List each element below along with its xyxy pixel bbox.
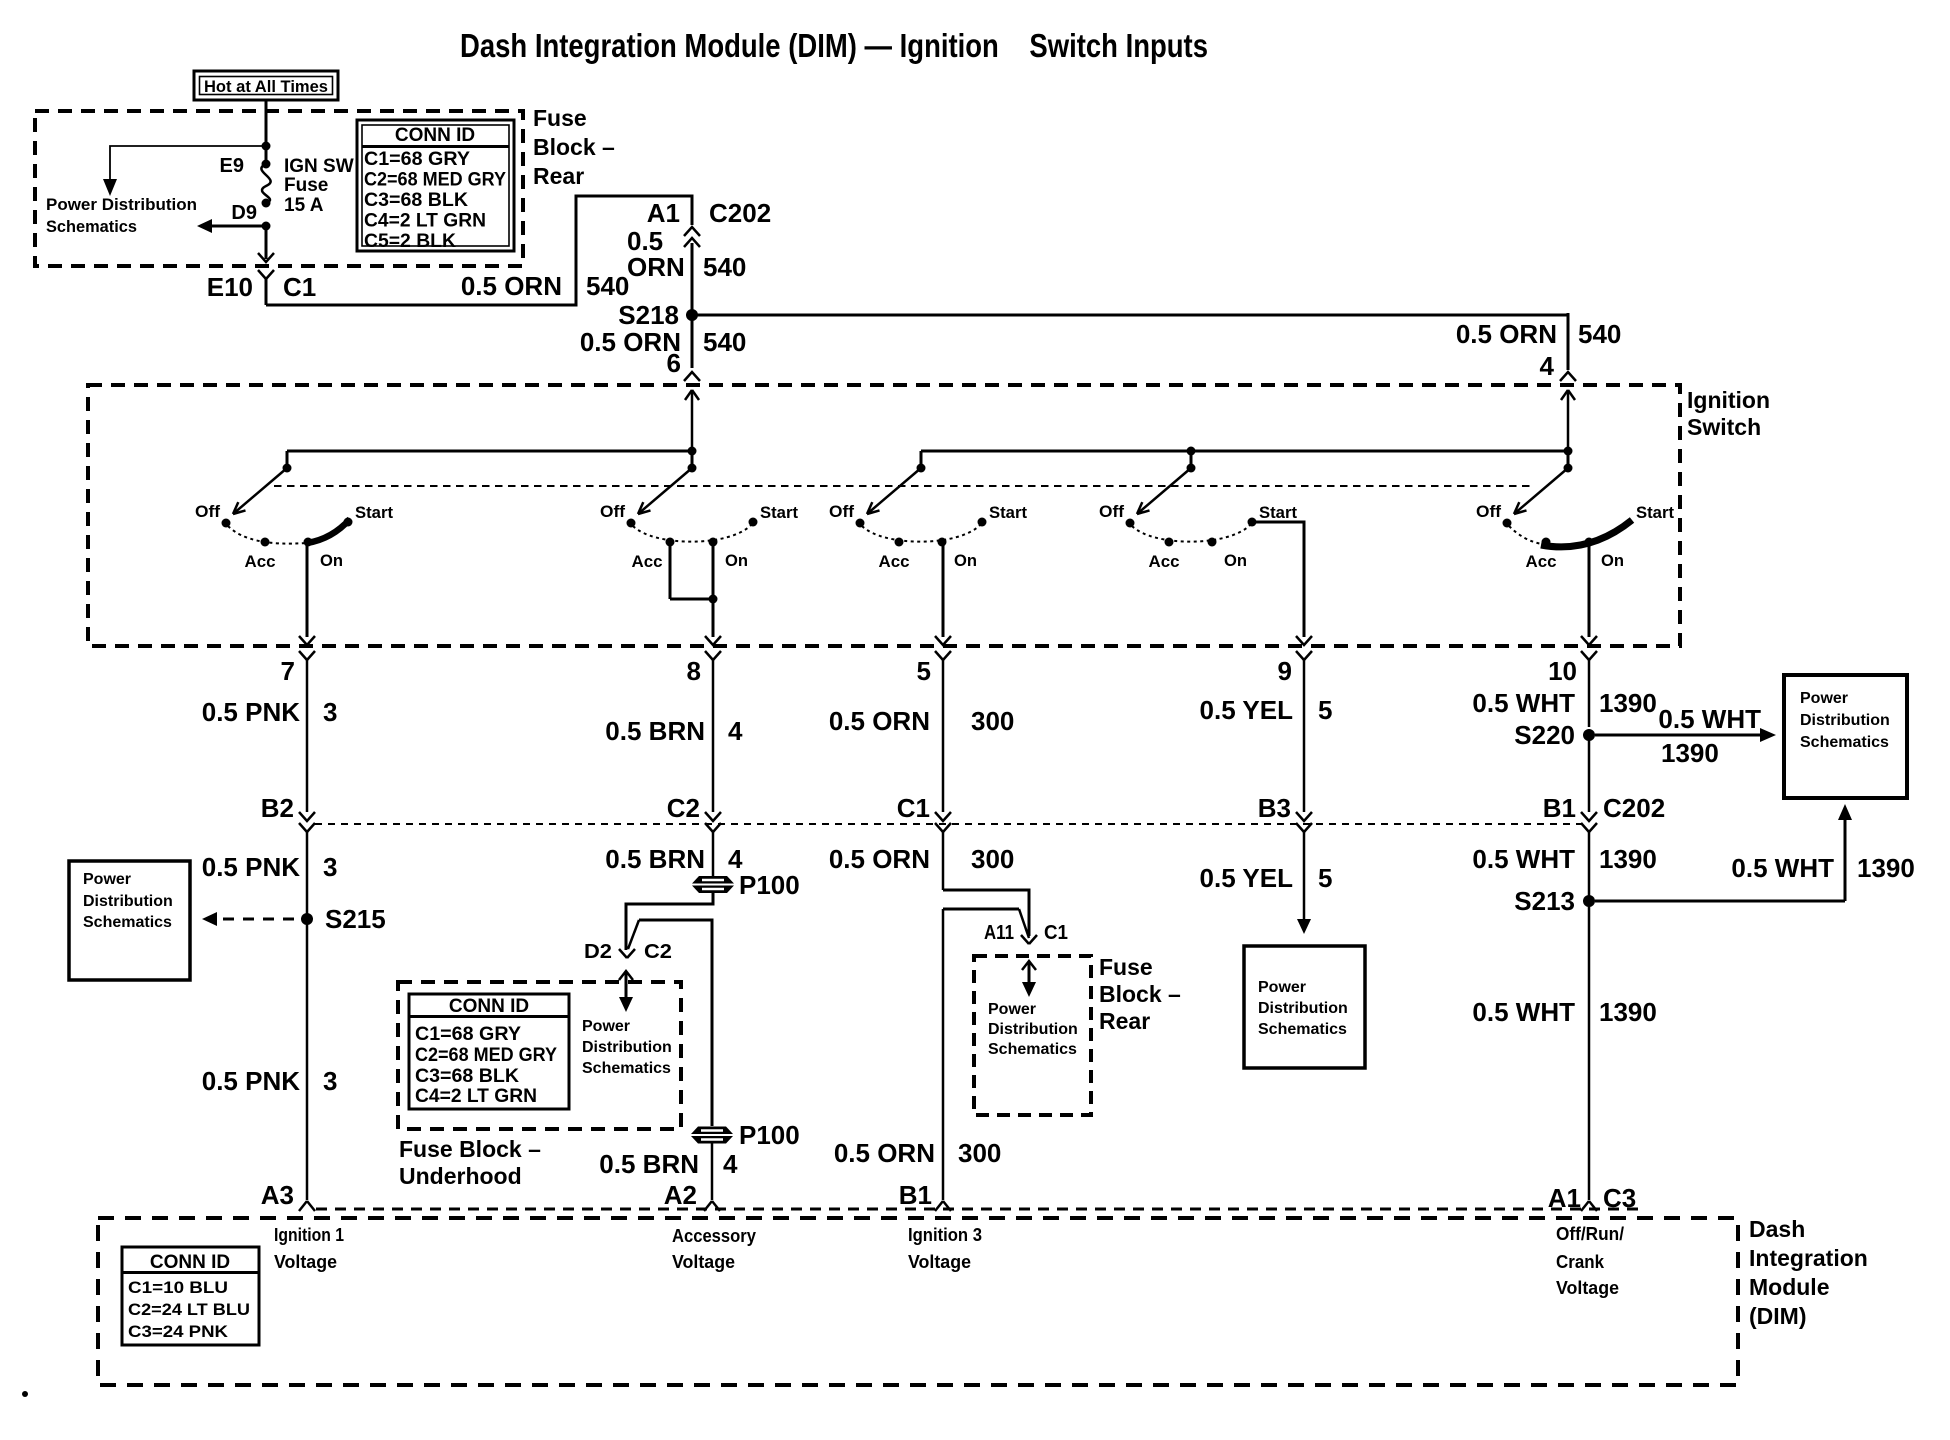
wire and arrow to power distribution schematics (left) (212, 225, 266, 228)
wire S218 branch to right (0.5 ORN 540) (692, 314, 1568, 317)
switch 1 output wire to pin 7 (306, 543, 309, 637)
splice S220 (1583, 729, 1595, 741)
wire C202 B2 down to DIM A3 (0.5 PNK 3) (306, 832, 309, 1200)
svg-text:Distribution: Distribution (988, 1021, 1078, 1038)
svg-text:5: 5 (917, 656, 931, 686)
switch bus wire (left section) (287, 450, 692, 453)
svg-text:On: On (1224, 551, 1247, 570)
switch section pivot (x=1568) (1567, 451, 1570, 468)
contact Acc (666, 538, 675, 547)
switch 2 Acc/On tie wires (669, 542, 672, 599)
svg-text:0.5 WHT: 0.5 WHT (1472, 688, 1575, 718)
svg-text:Ignition 1: Ignition 1 (274, 1225, 344, 1245)
svg-text:C2=24 LT BLU: C2=24 LT BLU (128, 1300, 250, 1319)
svg-text:Power: Power (582, 1018, 630, 1035)
svg-text:Fuse: Fuse (1099, 954, 1153, 980)
svg-text:A2: A2 (664, 1180, 697, 1210)
switch 5 output wire to pin 10 (1588, 546, 1591, 637)
contact Acc (1165, 538, 1174, 547)
svg-text:10: 10 (1548, 656, 1577, 686)
wire S220 to C202 B1 (1588, 735, 1591, 812)
svg-text:0.5 BRN: 0.5 BRN (599, 1149, 699, 1179)
connector C202 pin A1 (double chevron) (684, 227, 700, 236)
svg-text:C2: C2 (667, 793, 700, 823)
svg-text:On: On (954, 551, 977, 570)
svg-text:0.5 ORN: 0.5 ORN (461, 271, 562, 301)
svg-text:7: 7 (281, 656, 295, 686)
travel arc (dashed) (862, 525, 980, 542)
svg-text:Off: Off (195, 502, 220, 521)
svg-text:300: 300 (971, 706, 1014, 736)
wire P100 to branch point (626, 893, 713, 950)
svg-text:P100: P100 (739, 1120, 800, 1150)
svg-text:0.5 BRN: 0.5 BRN (605, 844, 705, 874)
svg-text:540: 540 (1578, 319, 1621, 349)
splice S215 (301, 913, 313, 925)
fuse block underhood dashed box (398, 982, 681, 1129)
switch section pivot (x=692) (691, 451, 694, 468)
svg-text:0.5 ORN: 0.5 ORN (829, 706, 930, 736)
svg-text:E10: E10 (207, 272, 253, 302)
svg-text:Fuse Block –: Fuse Block – (399, 1136, 541, 1162)
contact Acc (261, 538, 270, 547)
connector C202 dashed line (315, 823, 1581, 825)
period mark (22, 1391, 28, 1397)
CONN ID table (DIM) (122, 1247, 259, 1345)
connector C202 cavity B2 (299, 812, 315, 821)
CONN ID table (fuse block underhood) (409, 994, 569, 1109)
contact On (938, 538, 947, 547)
svg-text:0.5 YEL: 0.5 YEL (1200, 863, 1294, 893)
svg-text:1390: 1390 (1599, 688, 1657, 718)
svg-text:4: 4 (1540, 351, 1555, 381)
grommet P100 (lower) (691, 1127, 733, 1135)
svg-text:E9: E9 (220, 155, 244, 177)
wire from fuse down to E10 (265, 226, 268, 259)
svg-text:Start: Start (1259, 503, 1297, 522)
svg-text:Hot at All Times: Hot at All Times (204, 77, 328, 96)
svg-text:On: On (1601, 551, 1624, 570)
power distribution schematics box (top right) (1784, 675, 1907, 798)
branch to A11 (jog) (943, 890, 1029, 936)
svg-text:0.5 ORN: 0.5 ORN (834, 1138, 935, 1168)
svg-text:C202: C202 (1603, 793, 1665, 823)
svg-text:Acc: Acc (632, 552, 663, 571)
connector box "Hot at All Times" (194, 71, 338, 100)
svg-text:S218: S218 (618, 300, 679, 330)
svg-text:Start: Start (760, 503, 798, 522)
wire C202 B1 down to DIM A1 (0.5 WHT 1390) (1588, 832, 1591, 1200)
wire S213 branch to power distribution schematics (1595, 900, 1845, 903)
svg-text:Accessory: Accessory (672, 1226, 756, 1246)
svg-text:C2=68 MED GRY: C2=68 MED GRY (364, 170, 506, 191)
wire E10 to C202 pin A1 (0.5 ORN 540) (266, 196, 692, 305)
svg-text:Schematics: Schematics (46, 217, 137, 236)
switch bus wire (right section) (921, 450, 1568, 453)
bus junction at pin 4 feed (1564, 447, 1573, 456)
svg-text:C3=68 BLK: C3=68 BLK (415, 1066, 519, 1087)
rotor arrow (1137, 468, 1191, 514)
svg-text:Schematics: Schematics (83, 914, 172, 931)
svg-text:Fuse: Fuse (533, 105, 587, 131)
svg-text:Dash Integration Module (DIM): Dash Integration Module (DIM) — Ignition… (460, 27, 1208, 64)
svg-text:Ignition: Ignition (1687, 387, 1770, 413)
svg-text:8: 8 (687, 656, 701, 686)
fuse block - rear dashed box (top left) (35, 111, 523, 266)
mechanical coupling dashed line (274, 485, 1532, 487)
switch 4 output wire from Start to pin 9 (1251, 522, 1304, 637)
wire right branch down into ignition switch pin 4 (1567, 313, 1570, 370)
svg-text:A11: A11 (984, 922, 1014, 944)
bus junction at switch 4 (1187, 447, 1196, 456)
connector pin 10 below ignition switch (1581, 651, 1589, 660)
svg-text:Fuse: Fuse (284, 175, 328, 196)
svg-text:1390: 1390 (1599, 997, 1657, 1027)
svg-text:Voltage: Voltage (1556, 1278, 1619, 1298)
arrow into power distribution schematics (column 9) (1297, 919, 1311, 934)
contact On (1208, 538, 1217, 547)
svg-text:Rear: Rear (533, 163, 584, 189)
svg-text:Dash: Dash (1749, 1216, 1805, 1242)
svg-text:Crank: Crank (1556, 1252, 1605, 1272)
svg-text:C4=2 LT GRN: C4=2 LT GRN (364, 211, 486, 232)
svg-text:(DIM): (DIM) (1749, 1303, 1806, 1329)
svg-text:Power: Power (1258, 979, 1306, 996)
svg-text:Start: Start (355, 503, 393, 522)
wire pin 7 to C202 B2 (306, 660, 309, 812)
svg-text:Acc: Acc (245, 552, 276, 571)
bus junction at pin 6 feed (688, 447, 697, 456)
svg-text:B1: B1 (899, 1180, 932, 1210)
svg-text:IGN SW: IGN SW (284, 156, 354, 177)
wire C202 C1 down (0.5 ORN 300) (942, 832, 945, 890)
svg-text:Acc: Acc (1526, 552, 1557, 571)
contact On (1585, 538, 1594, 547)
wire P100 to DIM A2 (0.5 BRN 4) (711, 1143, 714, 1200)
wire pin 5 to C202 C1 (942, 660, 945, 812)
svg-text:S215: S215 (325, 904, 386, 934)
wire pin 9 to C202 B3 (1303, 660, 1306, 812)
svg-text:Power Distribution: Power Distribution (46, 195, 197, 214)
connector D2 / C2 into fuse block underhood (619, 949, 627, 958)
travel arc (dashed) (228, 526, 306, 544)
svg-text:Off: Off (829, 502, 854, 521)
svg-text:S213: S213 (1514, 886, 1575, 916)
svg-text:On: On (320, 551, 343, 570)
rotor arrow (867, 468, 921, 514)
svg-text:0.5 ORN: 0.5 ORN (1456, 319, 1557, 349)
svg-text:5: 5 (1318, 695, 1332, 725)
svg-text:3: 3 (323, 697, 337, 727)
off-page arrow to power distribution schematics (underhood) (619, 971, 633, 980)
switch section pivot (x=921) (920, 451, 923, 468)
svg-text:0.5 WHT: 0.5 WHT (1731, 853, 1834, 883)
rotor arrow (1514, 468, 1568, 514)
wire A1 to splice S218 (691, 243, 694, 315)
svg-text:4: 4 (723, 1149, 738, 1179)
travel arc (dashed) (633, 525, 751, 542)
svg-text:Power: Power (988, 1001, 1036, 1018)
svg-text:Off: Off (1099, 502, 1124, 521)
fuse IGN SW Fuse 15 A (261, 164, 270, 203)
svg-text:9: 9 (1278, 656, 1292, 686)
svg-text:Switch: Switch (1687, 414, 1761, 440)
dashed branch S215 to power distribution schematics (218, 918, 294, 921)
svg-text:1390: 1390 (1661, 738, 1719, 768)
svg-text:3: 3 (323, 852, 337, 882)
svg-text:C5=2 BLK: C5=2 BLK (364, 231, 456, 252)
connector E10 / C1 (258, 270, 266, 279)
wire C202 B3 down (0.5 YEL 5) (1303, 832, 1306, 919)
svg-text:C202: C202 (709, 198, 771, 228)
dash integration module dashed box (98, 1218, 1738, 1385)
svg-text:3: 3 (323, 1066, 337, 1096)
svg-text:CONN ID: CONN ID (150, 1252, 230, 1273)
rotor arrow (638, 468, 692, 514)
splice S213 (1583, 895, 1595, 907)
svg-text:C1: C1 (1044, 922, 1068, 944)
svg-text:Schematics: Schematics (1258, 1021, 1347, 1038)
fuse block rear dashed box (middle) (974, 956, 1091, 1115)
svg-text:1390: 1390 (1857, 853, 1915, 883)
svg-text:Voltage: Voltage (274, 1252, 337, 1272)
arrow to power distribution schematics (103, 179, 117, 196)
svg-text:540: 540 (703, 252, 746, 282)
contact On (304, 538, 313, 547)
DIM connector face dashed line (316, 1208, 1645, 1211)
svg-text:1390: 1390 (1599, 844, 1657, 874)
connector pin 8 below ignition switch (705, 651, 713, 660)
connector C202 cavity C2 (705, 812, 721, 821)
svg-text:B3: B3 (1258, 793, 1291, 823)
contact Acc (895, 538, 904, 547)
svg-text:Start: Start (989, 503, 1027, 522)
switch section pivot (x=1191) (1190, 451, 1193, 468)
junction below fuse (262, 222, 271, 231)
contact Acc (1542, 538, 1551, 547)
power distribution schematics box (left) (69, 861, 190, 980)
svg-text:0.5 WHT: 0.5 WHT (1658, 704, 1761, 734)
svg-text:P100: P100 (739, 870, 800, 900)
svg-text:S220: S220 (1514, 720, 1575, 750)
contact On (709, 538, 718, 547)
junction on feed wire (262, 142, 271, 151)
svg-text:D9: D9 (231, 202, 257, 224)
connector A11 / C1 into fuse block rear (1021, 935, 1029, 944)
svg-text:B2: B2 (261, 793, 294, 823)
CONN ID table (fuse block rear) (357, 120, 514, 251)
grommet P100 (upper) (692, 876, 734, 884)
wire pin 10 to C202 B1 (1588, 660, 1591, 727)
svg-text:Acc: Acc (879, 552, 910, 571)
splice S218 (686, 309, 698, 321)
svg-text:C1: C1 (897, 793, 930, 823)
svg-text:Off/Run/: Off/Run/ (1556, 1224, 1624, 1244)
svg-text:CONN ID: CONN ID (395, 125, 475, 146)
contact Off (222, 519, 231, 528)
svg-text:Block –: Block – (1099, 981, 1181, 1007)
rotor contact arc (Acc to Start) (1541, 520, 1632, 547)
svg-text:Schematics: Schematics (988, 1041, 1077, 1058)
wire C202 C2 down to P100 (0.5 BRN 4) (712, 832, 715, 876)
svg-text:Distribution: Distribution (83, 893, 173, 910)
connector C202 cavity C1 (935, 812, 951, 821)
svg-text:D2: D2 (584, 941, 612, 963)
branch wire to DIM A2 (jog) (639, 920, 712, 1126)
svg-text:On: On (725, 551, 748, 570)
ignition switch dashed box (88, 385, 1680, 646)
wire S220 branch to power distribution schematics (1595, 734, 1760, 737)
svg-text:0.5 ORN: 0.5 ORN (829, 844, 930, 874)
rotor arrow (233, 468, 287, 514)
travel arc (dashed) (1132, 525, 1250, 542)
svg-text:Acc: Acc (1149, 552, 1180, 571)
svg-text:0.5 WHT: 0.5 WHT (1472, 844, 1575, 874)
svg-text:C1=68 GRY: C1=68 GRY (364, 149, 470, 170)
svg-text:Underhood: Underhood (399, 1163, 522, 1189)
contact Start (344, 518, 353, 527)
connector pin 5 below ignition switch (935, 651, 943, 660)
svg-text:300: 300 (958, 1138, 1001, 1168)
svg-text:C1=10 BLU: C1=10 BLU (128, 1278, 228, 1297)
svg-text:0.5 BRN: 0.5 BRN (605, 716, 705, 746)
svg-text:A1: A1 (647, 198, 680, 228)
svg-text:Schematics: Schematics (1800, 734, 1889, 751)
svg-text:Schematics: Schematics (582, 1060, 671, 1077)
svg-text:4: 4 (728, 716, 743, 746)
svg-text:Rear: Rear (1099, 1008, 1150, 1034)
switch section pivot (x=287) (286, 451, 289, 468)
svg-text:C3=24 PNK: C3=24 PNK (128, 1322, 229, 1341)
connector C202 cavity B1 (1581, 812, 1597, 821)
svg-text:B1: B1 (1543, 793, 1576, 823)
svg-text:Distribution: Distribution (1800, 712, 1890, 729)
svg-text:ORN: ORN (627, 252, 685, 282)
svg-text:Off: Off (1476, 502, 1501, 521)
svg-text:C1: C1 (283, 272, 316, 302)
svg-text:300: 300 (971, 844, 1014, 874)
power distribution schematics box (column 9) (1244, 946, 1365, 1068)
svg-text:5: 5 (1318, 863, 1332, 893)
rotor contact arc (On to Start) (307, 519, 350, 543)
svg-text:A3: A3 (261, 1180, 294, 1210)
wire down to DIM B1 (0.5 ORN 300) (942, 909, 945, 1200)
svg-text:Integration: Integration (1749, 1245, 1868, 1271)
svg-text:0.5 YEL: 0.5 YEL (1200, 695, 1294, 725)
svg-text:0.5 PNK: 0.5 PNK (202, 1066, 300, 1096)
svg-text:Distribution: Distribution (1258, 1000, 1348, 1017)
svg-text:0.5 PNK: 0.5 PNK (202, 697, 300, 727)
svg-text:C2=68 MED GRY: C2=68 MED GRY (415, 1045, 557, 1066)
svg-text:6: 6 (667, 348, 681, 378)
contact Start (1248, 518, 1257, 527)
svg-text:Power: Power (83, 871, 131, 888)
svg-text:C2: C2 (644, 941, 672, 963)
svg-text:Module: Module (1749, 1274, 1830, 1300)
svg-text:0.5 WHT: 0.5 WHT (1472, 997, 1575, 1027)
connector pin 9 below ignition switch (1296, 651, 1304, 660)
connector C202 cavity B3 (1296, 812, 1312, 821)
switch 3 output wire to pin 5 (942, 543, 945, 637)
contact Off (1126, 519, 1135, 528)
svg-text:540: 540 (586, 271, 629, 301)
svg-text:Voltage: Voltage (672, 1252, 735, 1272)
svg-text:C4=2 LT GRN: C4=2 LT GRN (415, 1086, 537, 1107)
wire S218 down into ignition switch pin 6 (0.5 ORN 540) (691, 315, 694, 368)
svg-text:540: 540 (703, 327, 746, 357)
svg-text:Voltage: Voltage (908, 1252, 971, 1272)
svg-text:Power: Power (1800, 690, 1848, 707)
wire pin 8 to C202 C2 (712, 660, 715, 812)
svg-text:Ignition 3: Ignition 3 (908, 1225, 982, 1245)
svg-text:0.5 PNK: 0.5 PNK (202, 852, 300, 882)
wire to power distribution schematics (down-left arrow) (110, 146, 266, 179)
svg-text:Start: Start (1636, 503, 1674, 522)
switch 2 output wire to pin 8 (712, 599, 715, 637)
svg-text:Block –: Block – (533, 134, 615, 160)
svg-text:C3=68 BLK: C3=68 BLK (364, 190, 468, 211)
contact Off (627, 519, 636, 528)
svg-text:Off: Off (600, 502, 625, 521)
contact Off (1503, 519, 1512, 528)
svg-text:15 A: 15 A (284, 195, 324, 216)
svg-text:Distribution: Distribution (582, 1039, 672, 1056)
contact Start (978, 518, 987, 527)
svg-text:CONN ID: CONN ID (449, 996, 529, 1017)
contact Off (856, 519, 865, 528)
wire from Hot at All Times down to fuse E9 (265, 100, 268, 164)
contact Start (749, 518, 758, 527)
svg-text:C1=68 GRY: C1=68 GRY (415, 1024, 521, 1045)
off-page arrow to power distribution schematics (rear) (1022, 961, 1036, 970)
travel arc (dashed) (1509, 526, 1542, 544)
connector pin 7 below ignition switch (299, 651, 307, 660)
